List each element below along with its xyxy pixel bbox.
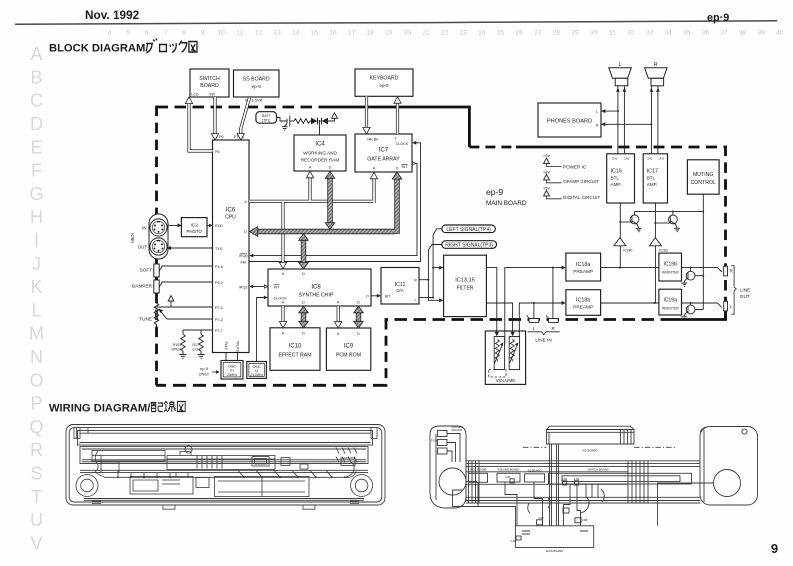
svg-text:A: A	[282, 332, 285, 336]
wire OSC2 to IC8 CLOCK	[257, 298, 265, 362]
svg-text:DIGITAL CIRCUIT: DIGITAL CIRCUIT	[563, 195, 600, 200]
wire speaker L stub	[466, 481, 477, 483]
svg-text:TUNE: TUNE	[139, 316, 152, 321]
small module c	[341, 458, 355, 466]
svg-text:IC10: IC10	[289, 344, 302, 350]
diode D1	[311, 118, 317, 125]
main board border: right edge dashed	[724, 146, 727, 320]
node junction diodes to IC4	[319, 120, 321, 122]
svg-text:OPAMP CIRCUIT: OPAMP CIRCUIT	[563, 179, 599, 184]
svg-text:10: 10	[218, 30, 226, 37]
svg-text:B: B	[30, 67, 42, 87]
svg-text:ep·9: ep·9	[707, 12, 729, 24]
svg-text:D: D	[396, 167, 399, 171]
svg-text:EFFECT RAM: EFFECT RAM	[278, 353, 311, 359]
wire speaker R to main	[658, 483, 714, 526]
wire IC11 L to left signal node	[419, 297, 433, 299]
svg-text:IC19b: IC19b	[664, 262, 678, 268]
svg-text:7: 7	[164, 30, 168, 37]
left end cap inner edge	[435, 434, 437, 500]
wire T4 base to muting	[695, 309, 703, 311]
volume slider right body	[509, 337, 519, 370]
svg-text:R103: R103	[173, 343, 181, 347]
chassis band mid rails	[466, 484, 700, 503]
connector cn4	[537, 520, 543, 525]
ram IC4	[294, 135, 346, 171]
main board border: step down edge dashed	[385, 320, 388, 387]
main board border: top edge right solid	[322, 107, 469, 147]
svg-text:MAIN BOARD: MAIN BOARD	[486, 200, 527, 207]
line out jack L	[724, 301, 728, 311]
svg-text:D: D	[302, 332, 305, 336]
main pcb inner lines	[218, 477, 305, 497]
wire volume wiper right to IC18b	[518, 303, 563, 343]
wire IC11 R to right signal node	[419, 279, 428, 281]
svg-text:33: 33	[646, 30, 654, 37]
svg-text:BATT: BATT	[262, 114, 270, 118]
volume slider left wiper	[495, 344, 503, 363]
wire IC6 P9-2 to damper pedal jack	[159, 282, 213, 288]
wire IC6 P7-7 to resistors	[183, 330, 213, 334]
svg-text:CPU: CPU	[225, 215, 236, 221]
arrowhead SS bus into IC6	[237, 134, 244, 141]
+V symbol at battery diode	[332, 113, 338, 119]
switch board long rect	[549, 473, 692, 484]
svg-text:CH2: CH2	[658, 156, 664, 160]
svg-text:L: L	[596, 110, 598, 114]
wire phones board L	[601, 110, 618, 112]
svg-text:IC19a: IC19a	[664, 298, 678, 304]
svg-text:MAIN BOARD: MAIN BOARD	[546, 549, 563, 553]
IC7 INT overline	[402, 164, 408, 166]
wire line in L jack up	[533, 303, 535, 318]
wire IC17 in from IC28a	[654, 203, 656, 238]
svg-text:28: 28	[553, 30, 561, 37]
volume slider right wiper	[510, 344, 518, 363]
arrowhead D branch into IC8	[299, 262, 309, 269]
svg-text:ONLY: ONLY	[199, 371, 210, 376]
arrowhead D bus into IC7	[392, 172, 402, 179]
corner tab left	[92, 501, 101, 504]
speaker L horn	[609, 68, 632, 79]
wire IC6 IRQ1 to IC8 INT	[252, 286, 266, 288]
main board box	[515, 526, 593, 548]
svg-text:IC18b: IC18b	[576, 298, 590, 304]
kanji haisen-zu drawn as strokes	[151, 401, 185, 412]
svg-text:SOFT: SOFT	[140, 267, 153, 272]
arrowhead MIDI IN to IC2	[178, 223, 182, 227]
svg-text:34: 34	[664, 30, 672, 37]
svg-text:LCD: LCD	[191, 93, 199, 97]
connector cn6	[563, 481, 567, 485]
svg-text:A: A	[337, 332, 340, 336]
wire IC2 to IC6 RXD	[207, 224, 213, 226]
key bed inner lines	[82, 449, 366, 462]
chassis feet left	[163, 505, 175, 509]
arrowhead D bus into IC6	[250, 227, 258, 237]
oscillator X1 20MHz inner	[223, 363, 241, 377]
svg-text:IC17: IC17	[647, 169, 658, 175]
svg-text:G: G	[29, 184, 43, 204]
main board dashed border: top edge left	[157, 106, 323, 109]
svg-text:16: 16	[329, 30, 337, 37]
arrowhead A bus into IC7	[370, 172, 377, 179]
left inner wires	[101, 455, 119, 473]
arrowhead INT output marker	[412, 162, 416, 165]
wire speaker L ch2	[623, 86, 625, 154]
svg-text:IC9: IC9	[344, 344, 354, 350]
svg-text:PREAMP: PREAMP	[573, 269, 593, 274]
arrowhead into IC18b	[562, 301, 566, 305]
cpu IC6	[213, 140, 250, 353]
svg-text:P7-0: P7-0	[215, 306, 223, 310]
svg-text:20MHz: 20MHz	[227, 373, 238, 377]
volume board box	[485, 331, 525, 384]
svg-text:P4-6: P4-6	[215, 265, 223, 269]
wire IC18a out to IC19b	[601, 267, 659, 269]
svg-text:OPEN: OPEN	[171, 348, 181, 352]
svg-text:DAMPER: DAMPER	[132, 283, 153, 288]
btl amp IC16	[607, 154, 635, 203]
svg-text:36: 36	[702, 30, 710, 37]
svg-text:CN1: CN1	[505, 475, 511, 479]
key bed left inner line	[92, 455, 165, 457]
svg-text:23: 23	[460, 30, 468, 37]
svg-text:26: 26	[515, 30, 523, 37]
wire filter out left to volume	[486, 268, 496, 333]
left speaker	[439, 468, 466, 495]
svg-text:D: D	[357, 332, 360, 336]
transistor T1	[630, 215, 642, 232]
arrowhead speaker L wire1	[616, 88, 620, 92]
wire speaker R ch2	[657, 86, 659, 154]
svg-text:SWITCH: SWITCH	[199, 76, 220, 82]
svg-text:+9V: +9V	[543, 153, 551, 158]
harness right squiggle	[345, 462, 356, 477]
grid letters column	[29, 44, 44, 553]
wire IC19a out to line out L	[682, 303, 722, 308]
svg-text:RXD: RXD	[215, 224, 223, 228]
svg-text:18: 18	[367, 30, 375, 37]
resistor R103 body	[181, 334, 185, 352]
ground under R17	[198, 352, 205, 358]
arrowhead IC9 D up	[354, 306, 364, 313]
pcm rom IC9	[326, 328, 370, 370]
svg-text:N: N	[30, 347, 43, 367]
wire IC28b tap	[619, 246, 621, 268]
arrowhead tune wiper	[159, 309, 164, 313]
svg-text:SWITCH BOARD: SWITCH BOARD	[588, 467, 609, 471]
svg-text:CN8: CN8	[582, 518, 588, 522]
center assembly hatch	[197, 456, 222, 469]
svg-text:A: A	[373, 167, 376, 171]
wire IC19b out to line out R	[682, 268, 722, 272]
harness left squiggle	[95, 451, 104, 477]
svg-text:35: 35	[683, 30, 691, 37]
IC6 IRQ0 overline	[240, 253, 247, 255]
wire T4 tap	[690, 303, 692, 305]
main board border: bottom right solid corner	[673, 309, 726, 320]
gate array IC7	[355, 134, 412, 172]
right speaker inner	[355, 479, 368, 492]
volume dashed extension	[489, 370, 506, 378]
wire phones board R	[601, 123, 651, 125]
svg-text:AMP.: AMP.	[611, 182, 622, 187]
main board border: upper step edge solid run	[516, 146, 601, 149]
svg-text:A: A	[282, 301, 285, 305]
svg-text:POWER IC: POWER IC	[563, 164, 587, 169]
node RIGHT SIGNAL TP3 pill	[442, 241, 497, 249]
wire T1 base tap	[620, 221, 632, 223]
main board border: upper step edge dashed	[469, 146, 516, 149]
svg-text:R: R	[654, 62, 658, 68]
svg-text:I: I	[34, 231, 39, 251]
svg-text:P7-7: P7-7	[215, 329, 223, 333]
wire T3 tap	[690, 268, 692, 272]
wire left signal vertical	[433, 229, 442, 298]
svg-text:IC28b: IC28b	[623, 249, 632, 253]
arrowhead IC2 to RXD	[209, 224, 213, 228]
oscillator X1 20MHz outer	[221, 361, 243, 380]
arrowhead into phones L	[601, 109, 605, 113]
wire IC6 P7-0 to +V and tune pot top	[157, 301, 213, 307]
connector cn1	[510, 479, 514, 483]
svg-text:BTL: BTL	[647, 176, 656, 181]
arrowhead speaker R wire1	[650, 88, 654, 92]
keyboard centerline dash-dot right	[634, 446, 675, 448]
katakana burokku-zu drawn as strokes	[146, 39, 197, 54]
wire speaker R ch1	[650, 86, 652, 154]
right speaker	[714, 470, 741, 497]
svg-text:IC16: IC16	[611, 169, 622, 175]
wire right signal vertical	[428, 245, 441, 301]
arrowhead into phones R	[601, 122, 605, 126]
svg-text:D/A: D/A	[396, 288, 403, 293]
svg-text:BTL: BTL	[611, 176, 620, 181]
svg-text:11: 11	[236, 30, 243, 37]
svg-text:32: 32	[627, 30, 635, 37]
wire switch to main a	[564, 484, 571, 526]
tune potentiometer body	[154, 300, 158, 328]
svg-text:23.2MHz: 23.2MHz	[250, 373, 263, 377]
svg-text:LEFT SIGNAL(TP4): LEFT SIGNAL(TP4)	[446, 227, 491, 233]
ground under R103	[180, 352, 187, 358]
line in brace	[528, 332, 560, 335]
chassis lower rail	[84, 499, 364, 501]
svg-text:L: L	[31, 300, 41, 320]
svg-text:CH1: CH1	[612, 156, 618, 160]
wire IC6 FAI to IC7 CLOCK	[249, 143, 421, 262]
wire switch to main c	[586, 484, 598, 497]
main board border: upper edge to right corner dashed	[601, 146, 727, 149]
svg-text:S: S	[30, 464, 42, 484]
svg-text:CH1: CH1	[647, 156, 653, 160]
svg-text:14: 14	[292, 30, 300, 37]
svg-text:R17: R17	[193, 343, 199, 347]
svg-text:FILTER: FILTER	[457, 286, 474, 292]
svg-text:+8V: +8V	[543, 169, 551, 174]
main board border: bottom edge right portion dashed	[385, 318, 673, 321]
chassis top rails	[466, 461, 700, 464]
wire jack board to main	[478, 482, 515, 506]
svg-text:R: R	[414, 279, 417, 283]
arrowhead T bus into keyboard	[394, 97, 401, 104]
line out bracket	[731, 266, 736, 314]
wire T1 collector	[634, 211, 636, 215]
wire battery TP1 stub	[277, 118, 287, 122]
opamp IC28a triangle	[649, 238, 661, 246]
svg-text:(TP1): (TP1)	[262, 119, 270, 123]
svg-text:ep-9: ep-9	[379, 83, 389, 88]
svg-text:39: 39	[758, 30, 766, 37]
svg-text:9: 9	[771, 541, 778, 556]
chassis inner shell	[69, 428, 382, 502]
harness main run	[104, 476, 345, 478]
top right hinge detail	[371, 428, 377, 439]
volume slider left track	[495, 340, 499, 362]
arrowhead IC9 D into IC9	[354, 321, 364, 328]
svg-text:A: A	[337, 301, 340, 305]
keyboard top strip	[78, 431, 373, 446]
battery cell symbol	[287, 116, 290, 127]
wire T3 base to muting	[695, 275, 703, 277]
board jumper wires	[176, 473, 188, 478]
wire switch to main b	[577, 484, 581, 526]
arrowhead FAI into IC7 CLOCK	[412, 141, 416, 145]
svg-text:D: D	[30, 114, 43, 134]
svg-text:L: L	[619, 62, 622, 68]
wire IC8 O to IC11 BIT	[371, 295, 379, 297]
junction dots	[427, 279, 429, 281]
speaker R magnet	[651, 78, 664, 86]
svg-text:SS BOARD: SS BOARD	[243, 77, 270, 83]
svg-text:4: 4	[108, 30, 112, 37]
dac IC11	[381, 268, 419, 305]
svg-text:M: M	[29, 324, 44, 344]
ep-9 ONLY pointer arrow	[212, 371, 217, 373]
keyboard slab top line	[547, 432, 635, 444]
diode D2	[322, 118, 328, 125]
filter IC13 IC15	[444, 255, 487, 316]
left end cap outline	[430, 426, 466, 508]
svg-text:BOARD: BOARD	[200, 83, 219, 89]
data bus black underlay	[253, 178, 398, 322]
svg-text:R: R	[30, 440, 43, 460]
svg-text:INVERTER: INVERTER	[662, 271, 680, 275]
svg-text:H: H	[30, 207, 43, 227]
band left hatch	[469, 461, 480, 503]
svg-text:V: V	[30, 533, 42, 553]
svg-text:IC28a: IC28a	[659, 249, 668, 253]
volume board rect	[497, 473, 520, 482]
volume slider right track	[510, 340, 514, 362]
svg-text:D: D	[302, 272, 305, 276]
main board inner marks	[522, 531, 588, 534]
svg-text:PCM ROM: PCM ROM	[336, 353, 361, 359]
resistor R17 body	[199, 334, 203, 352]
svg-text:PHOTO: PHOTO	[186, 229, 202, 234]
svg-text:20: 20	[404, 30, 412, 37]
svg-text:L: L	[730, 304, 733, 309]
address bus white core	[189, 96, 398, 322]
svg-text:CN2: CN2	[538, 516, 544, 520]
svg-text:Q: Q	[29, 417, 43, 437]
svg-text:XTAL: XTAL	[225, 341, 229, 350]
corner tab right	[350, 501, 359, 504]
wire muting control down	[702, 194, 704, 309]
svg-text:WORKING AND: WORKING AND	[303, 151, 337, 156]
right cap pilot circle	[742, 429, 747, 434]
line out jack R	[724, 266, 728, 276]
resistor backup body	[294, 119, 311, 124]
MIDI OUT DIN socket	[150, 238, 167, 255]
svg-text:D: D	[357, 301, 360, 305]
chassis mid rails	[80, 470, 368, 472]
right end cap outline	[700, 427, 758, 506]
synthesizer IC8	[268, 269, 371, 306]
phones board	[538, 103, 601, 137]
svg-text:IN: IN	[142, 225, 146, 230]
svg-text:21: 21	[422, 30, 430, 37]
node LEFT SIGNAL TP4 pill	[442, 225, 496, 233]
wire IC6 P4-6 to soft pedal jack	[159, 266, 213, 272]
arrowhead keyboard MK BK into IC7	[363, 127, 370, 133]
wire IC7 INT to IC6 IRQ0	[252, 163, 417, 255]
svg-text:U: U	[30, 510, 43, 530]
svg-text:6: 6	[145, 30, 149, 37]
small module d	[300, 464, 308, 469]
svg-text:IRQ1: IRQ1	[239, 285, 248, 289]
svg-text:29: 29	[571, 30, 579, 37]
svg-text:24: 24	[478, 30, 486, 37]
wire IC18b out to IC19a	[601, 302, 659, 304]
transistor T4	[681, 305, 695, 320]
top left hinge detail	[74, 428, 88, 439]
keyboard centerline dash-dot left	[523, 446, 546, 448]
arrowhead speaker R wire2	[656, 88, 660, 92]
pedal jack small rect	[438, 448, 448, 454]
wire IC6 EXTAL to OSC1	[237, 353, 239, 361]
keyboard slab outer	[547, 430, 635, 445]
left board inner	[133, 480, 180, 491]
svg-text:17: 17	[348, 30, 356, 37]
svg-text:E: E	[30, 137, 42, 157]
svg-text:INT: INT	[401, 165, 408, 169]
svg-text:C: C	[30, 91, 43, 111]
svg-text:P: P	[30, 394, 42, 414]
inverter IC19a	[659, 289, 682, 315]
effect ram IC10	[270, 328, 320, 371]
svg-text:LINE IN: LINE IN	[535, 338, 551, 343]
arrowhead IC8 D into IC10	[299, 321, 309, 328]
wire diode junction to IC4	[319, 121, 321, 135]
arrowhead OSC2 into IC8 CLOCK	[264, 296, 268, 300]
right end cap inner	[700, 427, 706, 502]
svg-text:R: R	[596, 123, 599, 127]
wire IC6 XTAL to OSC1	[225, 353, 227, 361]
arrowhead IRQ1 into IC8 INT	[264, 285, 268, 288]
main board border: bottom edge left portion dashed	[156, 384, 386, 387]
phones board small rect	[438, 431, 448, 437]
svg-text:0 Ω: 0 Ω	[193, 348, 199, 352]
svg-text:27: 27	[534, 30, 542, 37]
svg-text:INVERTER: INVERTER	[662, 307, 680, 311]
wire T2 collector	[672, 211, 674, 215]
keyboard board	[355, 69, 413, 96]
svg-text:LINE: LINE	[740, 288, 750, 293]
svg-text:OUT: OUT	[138, 244, 148, 249]
svg-text:CLOCK: CLOCK	[396, 142, 409, 146]
